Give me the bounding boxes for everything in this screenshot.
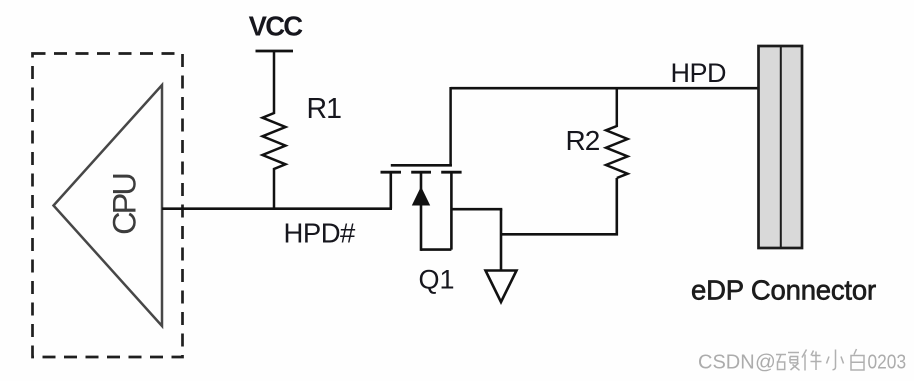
svg-text:0203: 0203 bbox=[868, 352, 907, 374]
wire source to R2 bottom bbox=[500, 209, 503, 270]
svg-text:@: @ bbox=[755, 351, 776, 374]
eDP connector J1 bbox=[759, 46, 803, 248]
resistor R1 bbox=[263, 51, 286, 209]
watermark CSDN bbox=[698, 349, 906, 374]
svg-text:HPD: HPD bbox=[671, 58, 727, 88]
ground bbox=[486, 271, 517, 303]
svg-text:CSDN: CSDN bbox=[698, 352, 755, 374]
resistor R2 bbox=[606, 88, 628, 178]
VCC supply bar bbox=[256, 50, 294, 53]
svg-text:CPU: CPU bbox=[107, 175, 143, 235]
svg-text:HPD#: HPD# bbox=[284, 218, 357, 249]
wire HPD# net bbox=[162, 207, 392, 210]
svg-text:Q1: Q1 bbox=[419, 265, 455, 295]
CPU buffer triangle bbox=[54, 85, 163, 326]
svg-text:R1: R1 bbox=[307, 93, 342, 125]
wire HPD rail bbox=[451, 87, 758, 90]
wire drain to HPD rail bbox=[449, 87, 452, 167]
transistor Q1 bbox=[381, 165, 462, 251]
wire source stub bbox=[451, 208, 502, 211]
wire bottom jumper bbox=[501, 178, 617, 234]
svg-text:VCC: VCC bbox=[249, 11, 304, 42]
CPU block dashed box bbox=[33, 54, 183, 358]
svg-text:R2: R2 bbox=[566, 125, 600, 156]
svg-text:eDP Connector: eDP Connector bbox=[691, 275, 876, 306]
